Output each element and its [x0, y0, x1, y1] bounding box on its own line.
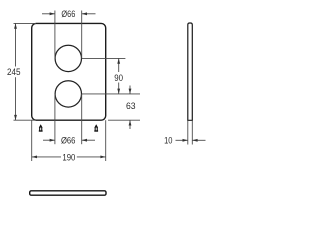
dimension 63 bottom arrow (outside, pointing up) — [129, 120, 131, 129]
plate bottom view strip — [30, 191, 106, 195]
plate front view outline — [32, 23, 106, 120]
dimension line 245 upper segment with arrow — [15, 23, 17, 66]
svg-text:63: 63 — [126, 101, 136, 111]
svg-text:245: 245 — [7, 67, 21, 77]
svg-text:10: 10 — [164, 135, 172, 145]
dimension 63 top arrow (outside, pointing down) — [129, 86, 131, 95]
extension line top dia right — [81, 11, 83, 59]
extension line 90/63 from lower circle center — [82, 93, 140, 95]
svg-text:Ø66: Ø66 — [61, 9, 75, 19]
extension line 63 bottom (plate bottom extended) — [108, 119, 140, 121]
svg-text:Ø66: Ø66 — [61, 135, 76, 145]
dimension line 245 lower segment with arrow — [15, 77, 17, 120]
hole top circle — [55, 45, 81, 71]
extension line bottom dia right — [81, 94, 83, 144]
pin marker left — [39, 124, 43, 132]
extension line 10 left — [187, 120, 189, 144]
svg-text:90: 90 — [114, 73, 123, 83]
extension line top dia left — [54, 11, 56, 59]
dimension line 90 upper segment with arrow — [118, 58, 120, 72]
extension line 90 top from circle center — [82, 57, 126, 59]
extension line bottom dia left — [54, 94, 56, 144]
extension line 190 right — [105, 120, 107, 161]
extension line 10 right — [191, 120, 193, 144]
plate side view bar — [188, 23, 193, 120]
dimension line 190 right segment with arrow — [77, 156, 106, 158]
dimension line bottom dia right segment with arrow — [82, 139, 95, 141]
dimension line bottom dia left segment with arrow — [43, 139, 55, 141]
pin marker right — [94, 124, 98, 132]
extension line 245 top — [14, 22, 37, 24]
dimension line 190 left segment with arrow — [32, 156, 61, 158]
dimension line top dia right segment with arrow — [82, 13, 96, 15]
svg-text:190: 190 — [62, 152, 75, 162]
hole bottom circle — [55, 81, 81, 107]
extension line 245 bottom — [14, 119, 37, 121]
dimension line 90 lower segment with arrow — [118, 83, 120, 94]
dimension line top dia left segment with arrow — [42, 13, 55, 15]
extension line 190 left — [31, 120, 33, 161]
dimension line 10 right segment with arrow — [192, 139, 205, 141]
dimension line 10 left segment with arrow — [176, 139, 188, 141]
